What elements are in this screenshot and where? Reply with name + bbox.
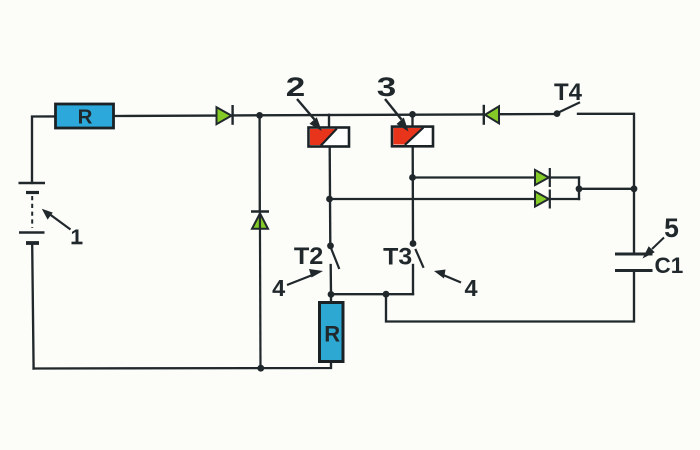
- wire: resistor R2 top stub: [330, 295, 332, 303]
- svg-text:4: 4: [465, 275, 478, 301]
- wire: branch down to bottom-right loop: [386, 271, 634, 322]
- wire: join to right rail: [579, 188, 634, 190]
- wire: relay K3 bottom stub to T3: [412, 146, 415, 242]
- svg-text:R: R: [324, 322, 340, 347]
- wire: relay K2 top stub: [328, 115, 330, 128]
- wire: middle vertical upper: [258, 115, 261, 211]
- label 1 with arrow: [42, 209, 83, 249]
- resistor R2 (vertical): [320, 303, 344, 362]
- wire: relay K3 top stub: [411, 114, 413, 126]
- svg-text:4: 4: [272, 275, 285, 301]
- switch T3: [383, 240, 423, 270]
- node: top bus / K3 stub: [409, 111, 416, 118]
- wire: upper diode feed: [413, 176, 535, 178]
- wire: relay K2 bottom stub to T2: [329, 147, 332, 246]
- wire: T3 lower terminal: [412, 265, 414, 294]
- svg-text:3: 3: [377, 72, 397, 102]
- node: right rail join: [631, 185, 638, 192]
- svg-text:5: 5: [664, 213, 679, 243]
- wire: left rail down: [32, 245, 33, 369]
- node: K2 line / lower diode feed: [326, 196, 333, 203]
- relay K2 (box 2): [309, 128, 350, 147]
- svg-text:T2: T2: [294, 243, 324, 270]
- wire: bottom bus: [34, 362, 331, 369]
- wire: top-left riser: [32, 116, 55, 183]
- node: branch point bottom link: [383, 291, 390, 298]
- wire: upper diode out: [550, 176, 579, 178]
- capacitor C1: [615, 253, 683, 278]
- label 4 (right) with arrow: [434, 270, 478, 302]
- svg-text:R: R: [78, 106, 93, 129]
- diode D3 (upper of pair, pointing right): [535, 168, 550, 187]
- node: T2 bottom: [328, 291, 335, 298]
- label 4 (left) with arrow: [272, 269, 323, 301]
- label 3 with arrow: [377, 72, 409, 132]
- wire: T2 lower terminal: [330, 265, 333, 295]
- wire: top bus diode2 to T4: [500, 113, 556, 116]
- relay K3 (box 3): [392, 127, 433, 147]
- diode D1 (top left, pointing right): [217, 105, 233, 125]
- switch T4: [554, 79, 583, 117]
- node: diode join: [576, 185, 583, 192]
- node: K3 line / upper diode feed: [409, 174, 416, 181]
- battery 1: [19, 183, 46, 243]
- svg-text:T3: T3: [383, 243, 412, 270]
- label 2 with arrow: [286, 72, 322, 131]
- wire: T4 to right rail corner: [578, 114, 634, 253]
- wire: bottom link T2-T3: [331, 293, 413, 295]
- svg-text:2: 2: [286, 72, 306, 102]
- wire: top bus R to diode: [114, 114, 216, 117]
- svg-text:1: 1: [71, 225, 83, 249]
- diode D2 (top, pointing left): [484, 105, 499, 125]
- wire: diode join vertical: [578, 178, 580, 200]
- diode D4 (lower of pair, pointing right): [535, 190, 550, 209]
- node: bottom bus / middle vertical: [257, 365, 264, 372]
- switch T2: [294, 242, 339, 270]
- wire: lower diode out: [550, 198, 579, 200]
- wire: top bus diode to T4 contact: [233, 114, 483, 115]
- node: top bus / middle vertical: [256, 112, 263, 119]
- resistor R1 (horizontal): [56, 104, 114, 129]
- svg-text:T4: T4: [554, 79, 583, 106]
- label 5 with arrow: [643, 213, 679, 259]
- svg-text:C1: C1: [655, 253, 684, 278]
- diode D5 (middle vertical, pointing up): [251, 212, 269, 369]
- wire: lower diode feed: [330, 198, 535, 200]
